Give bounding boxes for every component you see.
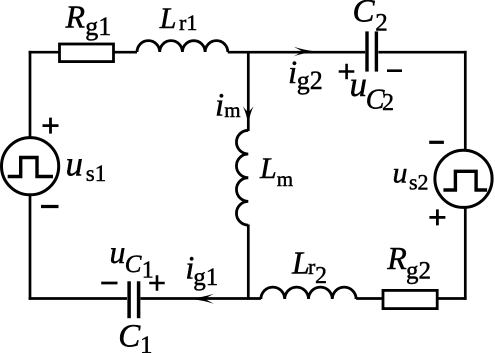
wire top horizontal left segment xyxy=(29,51,137,54)
svg-text:L: L xyxy=(291,244,310,280)
svg-text:2: 2 xyxy=(375,9,388,36)
u_s2 minus sign xyxy=(429,141,444,144)
svg-text:R: R xyxy=(386,240,407,276)
svg-text:g1: g1 xyxy=(193,264,218,291)
wire left rail upper xyxy=(29,51,32,138)
svg-text:2: 2 xyxy=(382,90,394,116)
svg-text:g1: g1 xyxy=(85,12,111,41)
wire right rail upper xyxy=(464,51,467,151)
source u_s1 circle xyxy=(2,138,59,195)
resistor R_g1 box xyxy=(60,44,114,62)
wire right rail lower xyxy=(464,207,467,300)
svg-text:1: 1 xyxy=(142,258,154,284)
source u_s2 circle xyxy=(435,150,492,207)
current arrow i_g2 xyxy=(294,47,317,57)
C2 minus sign xyxy=(387,69,402,72)
svg-text:L: L xyxy=(259,152,277,185)
inductor L_m coil xyxy=(236,130,248,225)
C1 minus sign xyxy=(101,282,117,285)
svg-text:C: C xyxy=(118,319,141,353)
svg-text:r1: r1 xyxy=(179,10,197,35)
wire bottom horizontal right segment xyxy=(356,297,466,300)
svg-text:s1: s1 xyxy=(86,161,106,186)
svg-text:C: C xyxy=(125,251,142,278)
capacitor C2 plates xyxy=(365,31,368,71)
u_s2 plus sign xyxy=(429,209,445,225)
wire middle branch upper xyxy=(247,52,250,131)
inductor L_r2 coil xyxy=(261,287,356,299)
svg-text:i: i xyxy=(288,55,297,91)
svg-text:g2: g2 xyxy=(297,66,323,95)
svg-text:u: u xyxy=(66,145,84,184)
svg-text:C: C xyxy=(353,0,376,30)
source u_s1 pulse symbol xyxy=(8,158,53,177)
svg-text:m: m xyxy=(224,98,240,122)
svg-text:L: L xyxy=(159,2,177,35)
u_s1 plus sign xyxy=(43,118,59,134)
current arrow i_g1 xyxy=(189,294,214,304)
source u_s2 pulse symbol xyxy=(443,171,487,190)
capacitor C1 plates xyxy=(127,281,131,318)
svg-text:u: u xyxy=(393,157,408,190)
svg-text:R: R xyxy=(65,0,86,35)
wire bottom horizontal middle segment xyxy=(141,297,261,300)
svg-text:2: 2 xyxy=(315,263,327,289)
wire top horizontal middle segment xyxy=(228,51,366,54)
C2 plus sign xyxy=(339,64,355,80)
u_s1 minus sign xyxy=(41,205,59,208)
svg-text:u: u xyxy=(350,65,368,104)
svg-text:s2: s2 xyxy=(409,169,429,194)
wire left rail lower xyxy=(29,195,32,300)
svg-text:u: u xyxy=(110,234,126,270)
svg-text:i: i xyxy=(215,88,224,124)
wire top horizontal right segment xyxy=(378,51,466,54)
wire bottom horizontal left segment xyxy=(29,297,127,300)
svg-text:m: m xyxy=(277,167,293,191)
wire middle branch lower xyxy=(247,225,250,300)
svg-text:1: 1 xyxy=(140,332,153,353)
resistor R_g2 box xyxy=(383,290,437,308)
inductor L_r1 coil xyxy=(137,41,228,52)
current arrow i_m xyxy=(243,106,254,125)
svg-text:g2: g2 xyxy=(406,258,431,285)
C1 plus sign xyxy=(149,275,165,291)
